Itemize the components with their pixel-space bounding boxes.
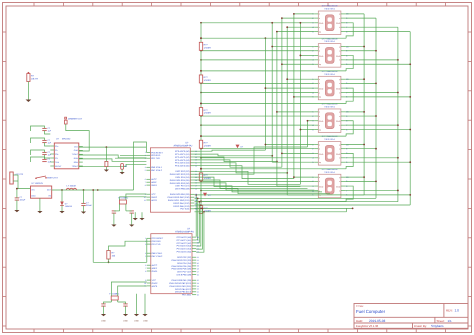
svg-text:PC5 ADC5 (A5): PC5 ADC5 (A5)	[177, 251, 192, 254]
svg-text:12: 12	[197, 288, 199, 291]
svg-text:1/100R: 1/100R	[204, 46, 211, 49]
svg-text:DIG13 PB5 (D13): DIG13 PB5 (D13)	[175, 291, 192, 294]
svg-text:c: c	[319, 125, 320, 127]
svg-text:7SEG-SR-A: 7SEG-SR-A	[324, 40, 335, 43]
svg-text:PD7 AIN1: PD7 AIN1	[180, 208, 190, 211]
svg-text:7: 7	[145, 181, 146, 184]
svg-text:GND2: GND2	[152, 282, 159, 285]
svg-text:DIG13 PB5 (D13): DIG13 PB5 (D13)	[173, 205, 190, 208]
svg-text:dp: dp	[319, 63, 321, 66]
svg-text:10: 10	[195, 208, 197, 211]
svg-text:24: 24	[197, 248, 199, 251]
svg-text:Drawn By:: Drawn By:	[414, 324, 427, 328]
svg-text:DIG12 PB4 (D12): DIG12 PB4 (D12)	[173, 202, 190, 205]
svg-text:AVCC: AVCC	[152, 264, 158, 267]
svg-text:DS? SM410561N: DS? SM410561N	[322, 135, 338, 138]
svg-text:+12V TR: +12V TR	[15, 173, 24, 176]
svg-text:e: e	[319, 46, 320, 48]
svg-text:DIG4 PD4 (D4): DIG4 PD4 (D4)	[175, 176, 189, 179]
svg-text:PC2 ADC2 (A2): PC2 ADC2 (A2)	[177, 242, 192, 245]
svg-text:g: g	[339, 14, 340, 16]
svg-text:a: a	[339, 51, 340, 53]
svg-text:c: c	[319, 158, 320, 160]
svg-text:GND: GND	[319, 22, 324, 25]
svg-text:e: e	[319, 14, 320, 16]
svg-text:c: c	[319, 27, 320, 29]
svg-text:GND: GND	[336, 120, 341, 123]
svg-text:1: 1	[145, 237, 146, 240]
svg-text:a: a	[339, 181, 340, 183]
svg-text:8: 8	[145, 270, 146, 273]
svg-text:DIMMER OUT: DIMMER OUT	[68, 118, 83, 121]
svg-text:DIG4 PD4 (D4): DIG4 PD4 (D4)	[177, 262, 191, 265]
svg-text:PC0 ADC0 (A0): PC0 ADC0 (A0)	[175, 150, 190, 153]
svg-text:PWM DIG10 PB2 (D10): PWM DIG10 PB2 (D10)	[169, 282, 191, 285]
svg-text:Sheet:: Sheet:	[437, 319, 445, 323]
svg-text:21: 21	[197, 259, 199, 262]
svg-text:d: d	[319, 148, 320, 151]
svg-text:PWM DIG11 PB3 (D11): PWM DIG11 PB3 (D11)	[168, 199, 190, 202]
svg-text:PWM DIG5 PD5 (D5): PWM DIG5 PD5 (D5)	[170, 179, 190, 182]
svg-text:DIG7 PD7 (D7): DIG7 PD7 (D7)	[175, 185, 189, 188]
svg-text:T1OUT: T1OUT	[72, 153, 79, 156]
svg-text:10k TR: 10k TR	[31, 77, 38, 80]
svg-text:DIG 8 PB0 (D8): DIG 8 PB0 (D8)	[177, 274, 192, 277]
svg-text:1: 1	[145, 151, 146, 154]
svg-text:b: b	[339, 91, 340, 94]
svg-text:13: 13	[197, 285, 199, 288]
svg-text:7SEG-SR-A: 7SEG-SR-A	[324, 105, 335, 108]
svg-text:GND: GND	[101, 320, 106, 323]
svg-text:PC3 ADC3 (A3): PC3 ADC3 (A3)	[175, 159, 190, 162]
svg-text:dp: dp	[319, 128, 321, 131]
svg-text:GND: GND	[319, 185, 324, 188]
svg-text:PC4 ADC4 (A4): PC4 ADC4 (A4)	[177, 248, 192, 251]
svg-text:PWM DIG5 PD5 (D5): PWM DIG5 PD5 (D5)	[171, 265, 191, 268]
svg-text:1/100R: 1/100R	[204, 144, 211, 147]
svg-text:AVCC: AVCC	[151, 178, 157, 181]
svg-text:PWM DIG3 PD3 (D3): PWM DIG3 PD3 (D3)	[170, 173, 190, 176]
svg-text:10: 10	[197, 294, 199, 297]
svg-text:VCC: VCC	[152, 279, 157, 282]
svg-text:330uF: 330uF	[86, 204, 92, 207]
svg-text:GND: GND	[319, 88, 324, 91]
svg-text:PC6 RESET: PC6 RESET	[151, 151, 163, 154]
svg-text:GND: GND	[336, 88, 341, 91]
svg-text:EasyEDA V6.1.36: EasyEDA V6.1.36	[356, 324, 379, 328]
svg-text:b: b	[339, 189, 340, 192]
svg-text:PC1 ADC1 (A1): PC1 ADC1 (A1)	[175, 153, 190, 156]
svg-text:PB7 XTAL2: PB7 XTAL2	[152, 255, 164, 258]
svg-text:b: b	[339, 59, 340, 62]
svg-text:DIG2 PD2 (D2): DIG2 PD2 (D2)	[177, 256, 191, 259]
svg-text:PC3 ADC3 (A3): PC3 ADC3 (A3)	[177, 245, 192, 248]
svg-text:GND1: GND1	[152, 270, 159, 273]
svg-text:22: 22	[197, 256, 199, 259]
svg-text:14: 14	[195, 196, 197, 199]
svg-text:g: g	[339, 46, 340, 48]
svg-text:DIG7 PD7 (D7): DIG7 PD7 (D7)	[177, 271, 191, 274]
svg-text:PB7 XTAL2: PB7 XTAL2	[151, 169, 163, 172]
svg-text:7SEG-SR-A: 7SEG-SR-A	[324, 8, 335, 11]
svg-text:d: d	[319, 50, 320, 53]
svg-text:GND: GND	[319, 55, 324, 58]
svg-text:dp: dp	[319, 161, 321, 164]
svg-text:GND: GND	[319, 153, 324, 156]
svg-text:20: 20	[197, 262, 199, 265]
svg-text:Date:: Date:	[356, 319, 363, 323]
svg-text:13: 13	[195, 199, 197, 202]
svg-text:15: 15	[195, 193, 197, 196]
svg-text:DS? SM410561N: DS? SM410561N	[322, 5, 338, 8]
svg-text:GND: GND	[134, 320, 139, 323]
svg-text:GND: GND	[336, 55, 341, 58]
svg-text:17: 17	[197, 271, 199, 274]
svg-text:DS? SM410561N: DS? SM410561N	[322, 168, 338, 171]
svg-text:PC5 ADC5 (A5): PC5 ADC5 (A5)	[175, 165, 190, 168]
svg-text:11: 11	[195, 205, 197, 208]
svg-text:C1-: C1-	[55, 149, 58, 152]
svg-text:6: 6	[145, 264, 146, 267]
svg-text:PWM DIG9 PB1 (D9): PWM DIG9 PB1 (D9)	[170, 193, 190, 196]
svg-text:Fuel Computer: Fuel Computer	[356, 309, 386, 314]
svg-text:1/100R: 1/100R	[204, 79, 211, 82]
svg-text:10: 10	[144, 196, 146, 199]
svg-text:AREF: AREF	[151, 181, 157, 184]
svg-text:e: e	[319, 177, 320, 179]
svg-text:11: 11	[197, 291, 199, 294]
svg-text:7SEG-SR-A: 7SEG-SR-A	[324, 171, 335, 174]
svg-text:9: 9	[145, 279, 146, 282]
svg-text:a: a	[339, 83, 340, 85]
svg-text:14: 14	[197, 282, 199, 285]
svg-text:a: a	[339, 116, 340, 118]
svg-text:19: 19	[197, 265, 199, 268]
svg-text:L? 100uH: L? 100uH	[67, 185, 77, 188]
svg-text:PWM DIG10 PB2 (D10): PWM DIG10 PB2 (D10)	[168, 196, 190, 199]
svg-text:g: g	[339, 79, 340, 81]
svg-text:GND: GND	[319, 120, 324, 123]
svg-text:b: b	[339, 26, 340, 29]
svg-text:TITLE:: TITLE:	[356, 305, 364, 308]
svg-text:PD1 TXD: PD1 TXD	[152, 243, 161, 246]
svg-text:18: 18	[197, 268, 199, 271]
svg-text:PC2 ADC2 (A2): PC2 ADC2 (A2)	[175, 156, 190, 159]
svg-text:PWM DIG11 PB3 (D11): PWM DIG11 PB3 (D11)	[170, 285, 192, 288]
svg-text:4: 4	[145, 166, 146, 169]
svg-text:PB6 XTAL1: PB6 XTAL1	[151, 166, 163, 169]
svg-text:PD0 RXD: PD0 RXD	[152, 240, 162, 243]
svg-text:REV:: REV:	[446, 309, 453, 313]
svg-text:GND1: GND1	[151, 184, 158, 187]
svg-text:PD0 RXD: PD0 RXD	[151, 154, 161, 157]
svg-text:R1OUT: R1OUT	[55, 165, 62, 168]
svg-text:c: c	[319, 92, 320, 94]
svg-text:PD1 TXD: PD1 TXD	[151, 157, 160, 160]
svg-text:PC0 ADC0 (A0): PC0 ADC0 (A0)	[177, 236, 192, 239]
svg-text:PC6 RESET: PC6 RESET	[152, 237, 164, 240]
svg-text:d: d	[319, 82, 320, 85]
svg-text:16: 16	[197, 273, 199, 276]
svg-text:23: 23	[197, 250, 199, 253]
svg-text:d: d	[319, 17, 320, 20]
svg-text:12: 12	[195, 202, 197, 205]
svg-text:11: 11	[144, 199, 146, 202]
svg-text:PC1 ADC1 (A1): PC1 ADC1 (A1)	[177, 239, 192, 242]
svg-text:ADC6: ADC6	[151, 199, 157, 202]
svg-text:7SEG-SR-A: 7SEG-SR-A	[324, 73, 335, 76]
svg-text:27: 27	[197, 239, 199, 242]
svg-text:R1IN: R1IN	[74, 157, 79, 160]
svg-text:T2OUT: T2OUT	[72, 165, 79, 168]
svg-text:PB6 XTAL1: PB6 XTAL1	[152, 252, 164, 255]
svg-text:DIG12 PB4 (D12): DIG12 PB4 (D12)	[175, 288, 192, 291]
svg-text:C2-: C2-	[55, 157, 58, 160]
svg-text:g: g	[339, 144, 340, 146]
svg-text:7SEG-SR-A: 7SEG-SR-A	[324, 138, 335, 141]
svg-text:a: a	[339, 18, 340, 20]
svg-text:PWM DIG6 PD6 (D6): PWM DIG6 PD6 (D6)	[171, 268, 191, 271]
svg-text:DS? SM410561N: DS? SM410561N	[322, 37, 338, 40]
svg-text:R2IN: R2IN	[74, 161, 79, 164]
svg-text:SWITCH-A: SWITCH-A	[47, 177, 58, 180]
svg-text:GND: GND	[336, 153, 341, 156]
svg-text:U? LM2576: U? LM2576	[32, 182, 44, 185]
svg-text:Smybans: Smybans	[431, 324, 444, 328]
svg-text:c: c	[319, 60, 320, 62]
svg-text:9: 9	[145, 193, 146, 196]
svg-text:1/100R: 1/100R	[204, 112, 211, 115]
svg-text:GND: GND	[336, 22, 341, 25]
svg-text:15: 15	[197, 279, 199, 282]
svg-text:26: 26	[197, 242, 199, 245]
svg-text:3: 3	[145, 243, 146, 246]
svg-text:VCC: VCC	[74, 145, 79, 148]
svg-text:MAX232: MAX232	[62, 137, 71, 140]
svg-text:ATMEGA328P-PU: ATMEGA328P-PU	[173, 144, 192, 147]
svg-text:GND: GND	[143, 320, 148, 323]
svg-text:GND2: GND2	[151, 196, 158, 199]
svg-text:6: 6	[145, 178, 146, 181]
svg-text:GND: GND	[336, 185, 341, 188]
svg-text:e: e	[319, 144, 320, 146]
svg-text:ATMEGA328P-PU: ATMEGA328P-PU	[175, 230, 194, 233]
svg-text:DS? SM410561N: DS? SM410561N	[322, 70, 338, 73]
svg-text:e: e	[319, 79, 320, 81]
svg-text:dp: dp	[319, 30, 321, 33]
svg-text:b: b	[339, 124, 340, 127]
svg-text:7: 7	[145, 267, 146, 270]
svg-text:5: 5	[145, 255, 146, 258]
svg-text:2019-05-03: 2019-05-03	[369, 319, 386, 323]
svg-text:DIG 8 PB0 (D8): DIG 8 PB0 (D8)	[175, 188, 190, 191]
svg-text:PC4 ADC4 (A4): PC4 ADC4 (A4)	[175, 162, 190, 165]
svg-text:4: 4	[145, 252, 146, 255]
svg-text:25: 25	[197, 245, 199, 248]
svg-text:PWM DIG9 PB1 (D9): PWM DIG9 PB1 (D9)	[172, 279, 192, 282]
svg-text:T1IN: T1IN	[55, 161, 60, 164]
svg-text:PWM DIG3 PD3 (D3): PWM DIG3 PD3 (D3)	[171, 259, 191, 262]
svg-text:100uF: 100uF	[20, 199, 26, 202]
svg-text:g: g	[339, 112, 340, 114]
svg-text:d: d	[319, 115, 320, 118]
svg-text:VCC: VCC	[151, 193, 156, 196]
svg-text:b: b	[339, 157, 340, 160]
svg-text:28: 28	[197, 236, 199, 239]
svg-text:ADC6: ADC6	[152, 285, 158, 288]
svg-text:GND: GND	[31, 194, 36, 197]
svg-text:PWM DIG6 PD6 (D6): PWM DIG6 PD6 (D6)	[170, 182, 190, 185]
svg-text:5: 5	[145, 169, 146, 172]
svg-text:PD7 AIN1: PD7 AIN1	[182, 294, 192, 297]
svg-text:DS? SM410561N: DS? SM410561N	[322, 103, 338, 106]
svg-text:g: g	[339, 177, 340, 179]
svg-text:GND: GND	[74, 149, 79, 152]
svg-text:e: e	[319, 112, 320, 114]
svg-text:a: a	[339, 149, 340, 151]
svg-text:GND: GND	[123, 320, 128, 323]
svg-text:1.0: 1.0	[455, 309, 460, 313]
svg-text:1N5819: 1N5819	[65, 205, 73, 208]
svg-text:AREF: AREF	[152, 267, 158, 270]
svg-text:DIG2 PD2 (D2): DIG2 PD2 (D2)	[175, 170, 189, 173]
svg-text:8: 8	[145, 184, 146, 187]
svg-text:d: d	[319, 180, 320, 183]
svg-text:1/1: 1/1	[448, 319, 453, 323]
svg-text:dp: dp	[319, 96, 321, 99]
